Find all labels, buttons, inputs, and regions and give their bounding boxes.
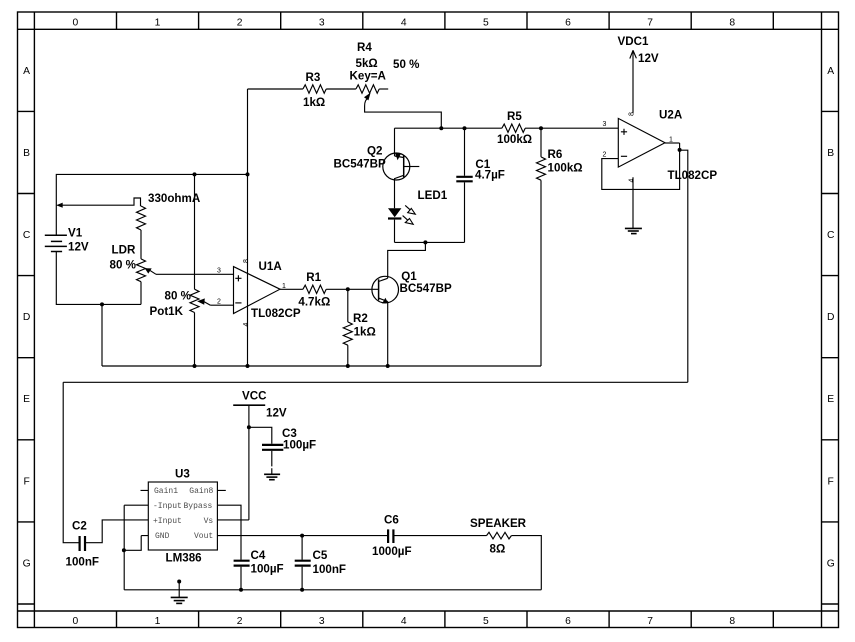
svg-text:12V: 12V xyxy=(266,407,287,420)
svg-text:+Input: +Input xyxy=(153,517,182,526)
svg-text:4: 4 xyxy=(243,323,250,327)
svg-text:5: 5 xyxy=(483,616,489,627)
svg-text:4.7kΩ: 4.7kΩ xyxy=(298,295,330,308)
svg-text:4: 4 xyxy=(401,616,407,627)
svg-text:6: 6 xyxy=(565,17,571,28)
svg-text:4: 4 xyxy=(629,179,636,183)
svg-text:E: E xyxy=(23,394,30,405)
svg-text:6: 6 xyxy=(565,616,571,627)
svg-text:V1: V1 xyxy=(68,227,83,240)
svg-text:Vs: Vs xyxy=(204,517,214,526)
svg-text:100nF: 100nF xyxy=(313,563,347,576)
svg-text:F: F xyxy=(23,476,29,487)
svg-text:50 %: 50 % xyxy=(393,58,419,71)
svg-text:E: E xyxy=(827,394,834,405)
svg-text:C4: C4 xyxy=(251,549,266,562)
svg-text:1: 1 xyxy=(282,283,286,290)
svg-text:8: 8 xyxy=(729,17,735,28)
svg-text:1: 1 xyxy=(669,137,673,144)
svg-text:R5: R5 xyxy=(507,110,522,123)
svg-text:1kΩ: 1kΩ xyxy=(354,325,376,338)
svg-text:R6: R6 xyxy=(548,148,563,161)
svg-text:Gain8: Gain8 xyxy=(189,487,213,496)
svg-text:3: 3 xyxy=(319,616,325,627)
svg-text:C2: C2 xyxy=(72,519,87,532)
svg-text:80 %: 80 % xyxy=(165,290,191,303)
svg-text:TL082CP: TL082CP xyxy=(251,307,301,320)
svg-text:2: 2 xyxy=(237,616,243,627)
svg-text:1: 1 xyxy=(155,17,161,28)
svg-text:C: C xyxy=(827,230,835,241)
svg-text:80 %: 80 % xyxy=(110,259,136,272)
svg-text:B: B xyxy=(23,148,30,159)
svg-text:C: C xyxy=(23,230,31,241)
svg-text:BC547BP: BC547BP xyxy=(334,158,386,171)
svg-text:G: G xyxy=(23,558,31,569)
svg-text:-Input: -Input xyxy=(153,502,182,511)
svg-text:LM386: LM386 xyxy=(166,552,203,565)
svg-text:A: A xyxy=(827,66,834,77)
svg-text:3: 3 xyxy=(603,121,607,128)
svg-text:Vout: Vout xyxy=(194,532,213,541)
svg-text:C6: C6 xyxy=(384,513,399,526)
svg-text:0: 0 xyxy=(73,616,79,627)
svg-text:330ohmA: 330ohmA xyxy=(148,192,201,205)
svg-text:1000µF: 1000µF xyxy=(372,545,412,558)
svg-text:0: 0 xyxy=(73,17,79,28)
svg-text:LED1: LED1 xyxy=(418,189,448,202)
svg-text:7: 7 xyxy=(647,17,653,28)
svg-text:U3: U3 xyxy=(175,468,190,481)
svg-text:Bypass: Bypass xyxy=(184,502,213,511)
svg-text:2: 2 xyxy=(603,152,607,159)
svg-text:8: 8 xyxy=(629,112,636,116)
svg-text:SPEAKER: SPEAKER xyxy=(470,517,527,530)
svg-text:100kΩ: 100kΩ xyxy=(497,133,532,146)
svg-text:R3: R3 xyxy=(306,71,321,84)
svg-text:100µF: 100µF xyxy=(251,562,284,575)
svg-text:8: 8 xyxy=(243,259,250,263)
svg-text:R4: R4 xyxy=(357,41,372,54)
svg-text:7: 7 xyxy=(647,616,653,627)
svg-text:8: 8 xyxy=(729,616,735,627)
svg-text:3: 3 xyxy=(319,17,325,28)
svg-text:5kΩ: 5kΩ xyxy=(356,57,378,70)
svg-text:100nF: 100nF xyxy=(66,556,100,569)
svg-text:GND: GND xyxy=(155,532,170,541)
svg-text:12V: 12V xyxy=(68,241,89,254)
svg-text:G: G xyxy=(827,558,835,569)
svg-text:5: 5 xyxy=(483,17,489,28)
svg-text:1kΩ: 1kΩ xyxy=(303,96,325,109)
svg-text:1: 1 xyxy=(155,616,161,627)
svg-text:VCC: VCC xyxy=(242,389,267,402)
svg-text:LDR: LDR xyxy=(112,244,136,257)
svg-text:Gain1: Gain1 xyxy=(154,487,178,496)
svg-text:C5: C5 xyxy=(313,549,328,562)
svg-text:VDC1: VDC1 xyxy=(618,35,649,48)
svg-text:8Ω: 8Ω xyxy=(490,543,506,556)
svg-text:100kΩ: 100kΩ xyxy=(548,162,583,175)
svg-text:R2: R2 xyxy=(353,312,368,325)
svg-text:D: D xyxy=(23,312,30,323)
svg-text:12V: 12V xyxy=(638,52,659,65)
svg-text:U1A: U1A xyxy=(259,260,283,273)
svg-text:4.7µF: 4.7µF xyxy=(475,168,505,181)
svg-text:D: D xyxy=(827,312,834,323)
svg-text:2: 2 xyxy=(237,17,243,28)
svg-text:TL082CP: TL082CP xyxy=(668,169,718,182)
svg-text:A: A xyxy=(23,66,30,77)
svg-text:BC547BP: BC547BP xyxy=(400,282,452,295)
svg-text:4: 4 xyxy=(401,17,407,28)
svg-text:100µF: 100µF xyxy=(283,439,316,452)
svg-text:Pot1K: Pot1K xyxy=(150,305,184,318)
svg-text:2: 2 xyxy=(217,298,221,305)
svg-text:Q2: Q2 xyxy=(367,144,382,157)
svg-text:U2A: U2A xyxy=(659,109,683,122)
svg-text:R1: R1 xyxy=(306,271,321,284)
svg-text:Key=A: Key=A xyxy=(350,70,387,83)
svg-text:F: F xyxy=(828,476,834,487)
svg-text:3: 3 xyxy=(217,268,221,275)
svg-text:B: B xyxy=(827,148,834,159)
